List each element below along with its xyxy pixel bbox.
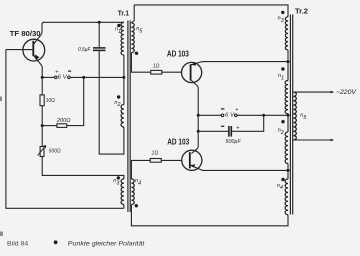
transistor Q3 circle — [182, 150, 202, 170]
wire Q1 emitter lead — [34, 56, 42, 78]
resistor R2 200R box — [57, 124, 67, 128]
inductor Tr.2 secondary n5 — [293, 92, 296, 140]
wire top long rail n5 to Tr.2 n3 — [134, 5, 288, 17]
resistor R1 10R box — [40, 95, 44, 106]
transistor Q1 circle — [23, 39, 45, 61]
svg-text:n1: n1 — [115, 27, 121, 35]
svg-text:n5: n5 — [136, 26, 143, 34]
inductor Tr.1 winding n3 — [121, 179, 124, 205]
inductor Tr.1 winding n5 — [131, 23, 134, 53]
node polarity dot n2 — [117, 95, 120, 98]
inductor Tr.1 winding n2 — [121, 105, 124, 128]
node polarity dot Tr.2 n1 — [281, 67, 284, 70]
node junction collector/battery rail — [197, 114, 200, 117]
wire Tr.2 n1-n2 link — [287, 114, 289, 132]
svg-text:1Ω: 1Ω — [153, 64, 160, 70]
node polarity dot n4 Tr.1 — [135, 204, 138, 207]
wire Tr.2 n3-n1 link — [287, 50, 289, 81]
transistor Q2 emitter arrow — [191, 62, 196, 65]
inductor Tr.1 winding n4 — [131, 179, 134, 205]
wire 200R right lead to rail riser — [67, 77, 84, 125]
inductor Tr.2 winding n3 — [285, 17, 288, 50]
inductor Tr.2 winding n1 — [285, 81, 288, 114]
svg-text:~220V: ~220V — [336, 89, 357, 96]
node junction emitter/rail — [41, 76, 44, 79]
capacitor C2 minus sign — [221, 125, 224, 127]
wire 10R to 500R — [41, 106, 43, 147]
wire top-left rail (collector to Tr.1 n1) — [43, 21, 124, 23]
battery B2 right terminal circle — [235, 114, 238, 117]
node junction battery/cap branch — [262, 114, 265, 117]
wire left rail — [6, 50, 124, 209]
wire cap rail left — [198, 130, 228, 132]
svg-text:6 V: 6 V — [58, 74, 69, 80]
wire cap branch right riser — [232, 115, 264, 131]
svg-text:Tr.2: Tr.2 — [295, 9, 308, 16]
svg-text:n5: n5 — [300, 113, 307, 121]
node polarity dot n5 — [135, 52, 138, 55]
wire 0.5uF top lead — [98, 22, 100, 47]
wire rail to right battery — [198, 114, 221, 116]
svg-text:AD 103: AD 103 — [167, 49, 189, 58]
wire Q2 emitter to upper rail — [191, 62, 288, 65]
node junction rail/Tr.1 left wire — [122, 76, 125, 79]
battery B2 minus sign — [221, 108, 224, 110]
svg-text:n4: n4 — [277, 183, 283, 191]
svg-text:500µF: 500µF — [226, 139, 242, 145]
battery B1 right terminal circle — [68, 76, 71, 79]
wire battery to Tr.1 — [70, 76, 124, 78]
svg-text:+: + — [235, 107, 238, 113]
wire emitter chain upper — [41, 77, 43, 95]
node junction Tr.2 upper rail — [287, 60, 290, 63]
inductor Tr.1 winding n1 — [121, 23, 124, 55]
wire Tr.1 n5 top riser to long top rail — [131, 5, 134, 23]
wire 0.5uF bottom lead crossing rail to n2 link — [99, 51, 124, 154]
node polarity dot Tr.2 n3 — [281, 11, 284, 14]
terminal arrow bottom — [331, 139, 335, 142]
node junction collector/cap rail — [197, 130, 200, 133]
svg-text:Bild 84: Bild 84 — [7, 242, 29, 248]
transformer Tr.1 core — [128, 21, 130, 213]
terminal arrow top — [331, 91, 335, 94]
svg-text:10Ω: 10Ω — [46, 98, 56, 104]
inductor Tr.2 winding n4 — [285, 179, 288, 215]
svg-text:500Ω: 500Ω — [49, 148, 61, 154]
wire 1R to Q3 base — [161, 159, 182, 161]
node junction Tr.2 battery rail — [287, 114, 290, 117]
potentiometer R3 500R box — [40, 147, 44, 157]
svg-text:n2: n2 — [278, 128, 285, 136]
scan smudge left 2 — [0, 232, 3, 237]
potentiometer R3 arrow — [38, 146, 46, 156]
wire Tr.2 n4 bottom to bottom rail — [131, 205, 288, 226]
wire Tr.1 n4 top to 1R — [131, 160, 150, 179]
node junction top rail / 0.5uF — [98, 21, 101, 24]
transistor Q3 base bar — [189, 152, 191, 168]
wire Q2 collector down — [191, 80, 198, 153]
resistor R5 1R box — [150, 159, 161, 163]
node polarity dot Tr.2 n4 — [281, 178, 284, 181]
svg-text:TF 80/30: TF 80/30 — [10, 29, 41, 38]
node junction rail/200R riser — [82, 76, 85, 79]
svg-text:1Ω: 1Ω — [152, 151, 159, 157]
wire Tr.1 n1-n2 link — [123, 55, 125, 105]
node polarity dot Tr.2 n2 — [281, 120, 284, 123]
resistor R4 1R box — [151, 70, 162, 74]
scan smudge left 1 — [0, 97, 2, 102]
wire secondary bottom terminal — [293, 139, 331, 141]
wire Q3 emitter to lower rail — [190, 165, 288, 170]
capacitor C2 500uF plates — [229, 126, 231, 137]
transistor Q1 base bar — [32, 41, 34, 56]
wire Tr.1 n5 bottom to 1R — [131, 53, 150, 73]
battery B1 left terminal circle — [55, 76, 58, 79]
wire Q1 base lead — [6, 49, 33, 51]
wire emitter to battery terminal — [42, 76, 54, 78]
battery B2 left terminal circle — [221, 114, 224, 117]
transformer Tr.2 core — [290, 15, 292, 215]
transistor Q2 circle — [182, 62, 202, 82]
node polarity dot n1 — [117, 24, 120, 27]
svg-text:n1: n1 — [278, 73, 284, 81]
node junction Tr.2 lower rail — [287, 169, 290, 172]
transistor Q3 emitter arrow — [190, 164, 195, 167]
wire 500R to lower-left rail — [42, 157, 124, 180]
svg-text:+: + — [236, 125, 239, 131]
svg-text:n2: n2 — [114, 100, 121, 108]
transistor Q2 base bar — [190, 64, 192, 80]
wire 200R left lead — [42, 125, 57, 127]
capacitor C1 plates — [93, 48, 106, 51]
wire 1R to Q2 base — [162, 71, 182, 73]
wire Tr.2 n2-n4 link — [287, 164, 289, 180]
svg-text:n4: n4 — [135, 178, 141, 186]
transistor Q1 emitter arrow — [35, 54, 40, 59]
svg-text:AD 103: AD 103 — [167, 137, 189, 146]
wire secondary top terminal — [293, 91, 331, 93]
legend polarity dot — [54, 240, 58, 244]
inductor Tr.2 winding n2 — [285, 132, 288, 164]
svg-text:Tr.1: Tr.1 — [118, 11, 129, 18]
node junction 200R tap — [41, 124, 44, 127]
svg-text:n3: n3 — [278, 16, 285, 24]
battery B1 minus sign — [68, 70, 71, 72]
wire battery to Tr.2 center — [237, 114, 288, 116]
wire Tr.1 n3 bottom — [123, 205, 125, 209]
node polarity dot n3 — [117, 176, 120, 179]
svg-text:200Ω: 200Ω — [56, 118, 71, 124]
wire Q1 collector to top rail — [34, 22, 44, 44]
svg-text:0,5µF: 0,5µF — [78, 47, 91, 53]
svg-text:Punkte gleicher Polarität: Punkte gleicher Polarität — [68, 241, 145, 248]
